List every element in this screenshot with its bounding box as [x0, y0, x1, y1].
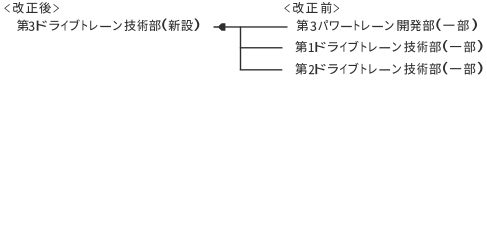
label 改正後 header [4, 2, 59, 14]
arrowhead pointing left [214, 23, 226, 30]
arrow line from old-org box to new dept [225, 26, 288, 27]
text 第3パワートレーン開発部(一部) [297, 18, 477, 31]
text 第2ドライブトレーン技術部(一部) [295, 62, 482, 75]
text 第3ドライブトレーン技術部(新設) [17, 18, 199, 31]
label 改正前 header [284, 2, 339, 14]
vertical trunk of bracket [240, 26, 241, 70]
middle branch wire [240, 47, 283, 48]
bottom branch wire [240, 69, 282, 70]
text 第1ドライブトレーン技術部(一部) [295, 40, 482, 53]
